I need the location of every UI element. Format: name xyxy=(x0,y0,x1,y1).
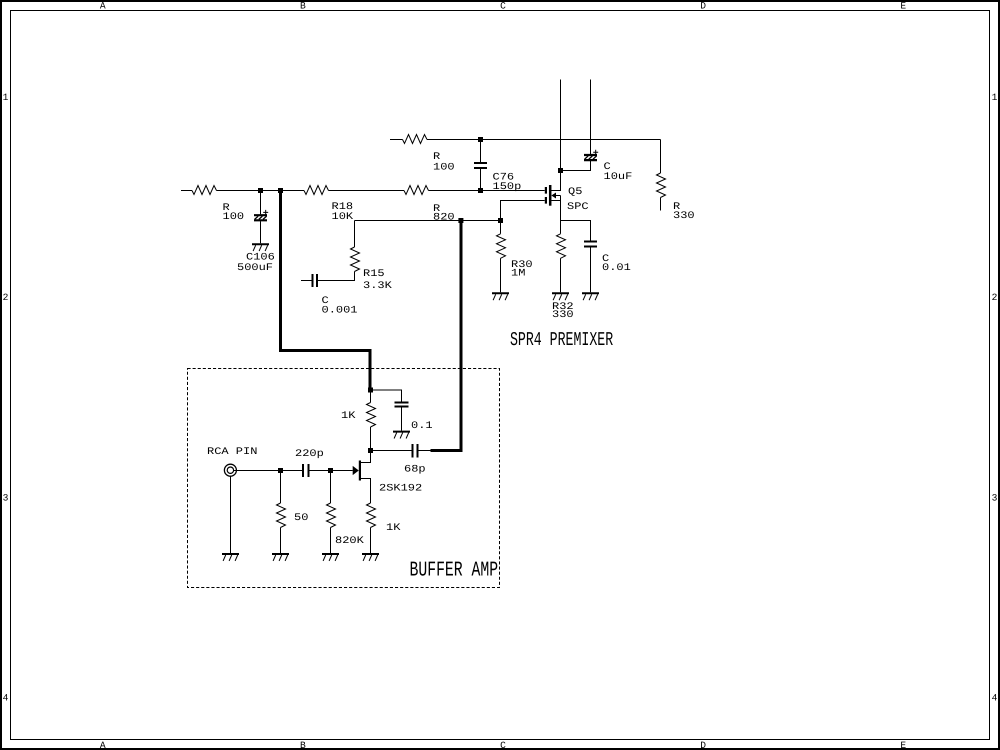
capacitor C 0.01 xyxy=(584,242,597,293)
svg-text:500uF: 500uF xyxy=(237,263,273,274)
svg-text:A: A xyxy=(100,740,106,750)
label R 330 xyxy=(673,202,695,222)
svg-text:D: D xyxy=(700,740,706,750)
dashed box buffer amp xyxy=(188,369,500,588)
resistor R32 330 xyxy=(557,221,566,293)
node JFET drain junction xyxy=(368,448,373,453)
wire gate2 rail xyxy=(355,220,501,222)
wire gate2 lead xyxy=(501,201,545,221)
svg-text:0.001: 0.001 xyxy=(322,306,358,317)
label BUFFER AMP xyxy=(410,559,499,582)
node 1K top junction xyxy=(368,388,373,393)
resistor 1K (source) xyxy=(367,503,376,553)
svg-text:1K: 1K xyxy=(341,411,355,422)
capacitor C76 150p xyxy=(474,140,487,191)
resistor R 330 xyxy=(657,173,666,211)
svg-text:10uF: 10uF xyxy=(604,172,633,183)
svg-text:0.01: 0.01 xyxy=(602,263,631,274)
ground 1K source xyxy=(362,554,379,561)
svg-text:820: 820 xyxy=(433,213,455,224)
resistor R 820 xyxy=(404,186,429,195)
wire input gate rail xyxy=(234,470,302,472)
transistor Q5 channel xyxy=(549,185,552,206)
wire vertical to C 10uF xyxy=(590,80,592,155)
label R30 1M xyxy=(511,260,533,280)
svg-text:3: 3 xyxy=(3,492,9,503)
svg-text:D: D xyxy=(700,1,706,12)
wire RCA to ground xyxy=(230,476,232,553)
connector RCA PIN xyxy=(224,464,236,476)
node C106 tap xyxy=(258,188,263,193)
resistor R18 10K xyxy=(304,186,329,195)
svg-text:C106: C106 xyxy=(246,253,275,264)
svg-text:C: C xyxy=(500,1,506,12)
svg-text:330: 330 xyxy=(673,211,695,222)
svg-text:68p: 68p xyxy=(404,465,426,476)
svg-text:3.3K: 3.3K xyxy=(363,281,392,292)
label R18 10K xyxy=(332,202,354,223)
ground C106 xyxy=(252,244,269,251)
node 820K tap xyxy=(328,468,333,473)
svg-text:10K: 10K xyxy=(332,212,354,223)
wire 2SK192 source xyxy=(361,479,371,504)
resistor R15 3.3K xyxy=(318,221,360,281)
svg-text:1: 1 xyxy=(3,92,9,103)
node C76 top xyxy=(478,137,483,142)
svg-text:150p: 150p xyxy=(493,182,522,193)
svg-text:4: 4 xyxy=(992,693,998,704)
wire C106 branch xyxy=(260,191,262,215)
resistor R30 1M xyxy=(497,221,506,293)
svg-text:2SK192: 2SK192 xyxy=(379,484,422,495)
resistor 1K (drain) xyxy=(367,390,376,448)
svg-text:3: 3 xyxy=(992,492,998,503)
label R 100 (top) xyxy=(433,152,455,174)
label RCA PIN xyxy=(207,447,257,458)
ground RCA xyxy=(222,554,239,561)
wire C106 to ground xyxy=(260,221,262,243)
wire to capacitor 68p xyxy=(371,450,412,452)
capacitor C 0.001 xyxy=(301,274,317,287)
svg-text:50: 50 xyxy=(294,513,308,524)
svg-text:100: 100 xyxy=(223,212,245,223)
label C 0.001 xyxy=(322,296,358,317)
label R32 330 xyxy=(552,302,574,321)
svg-text:4: 4 xyxy=(3,693,9,704)
label R 820 xyxy=(433,204,455,224)
label 1K (source) xyxy=(386,523,400,534)
label 220p xyxy=(295,449,324,460)
svg-text:BUFFER AMP: BUFFER AMP xyxy=(410,559,499,582)
svg-text:A: A xyxy=(100,1,106,12)
capacitor C 10uF (electrolytic) xyxy=(584,150,598,160)
svg-text:0.1: 0.1 xyxy=(411,421,433,432)
resistor R 100 (mid) xyxy=(192,186,217,195)
label 0.1 xyxy=(411,421,433,432)
wire thick bus buffer output xyxy=(431,222,462,451)
resistor R 100 (top) xyxy=(403,135,428,144)
svg-text:R15: R15 xyxy=(363,269,385,280)
label Q5 SPC xyxy=(567,187,589,213)
wire vertical drain feed xyxy=(551,80,561,191)
ground cap 0.1 xyxy=(393,432,410,439)
resistor 50 xyxy=(277,471,286,554)
svg-text:RCA PIN: RCA PIN xyxy=(207,447,257,458)
svg-text:2: 2 xyxy=(992,292,998,303)
wire to cap 0.1 xyxy=(371,390,402,402)
node 50 tap xyxy=(278,468,283,473)
wire top supply rail xyxy=(390,139,661,141)
label C 10uF xyxy=(604,162,633,183)
label R 100 (mid) xyxy=(223,203,245,223)
ground 50 xyxy=(272,554,289,561)
svg-text:B: B xyxy=(300,740,306,750)
node C76 bottom xyxy=(478,188,483,193)
node buffer output tap xyxy=(458,218,463,223)
capacitor C106 500uF (electrolytic) xyxy=(254,210,268,220)
wire thick bus from input rail to buffer xyxy=(281,192,371,390)
label R15 3.3K xyxy=(363,269,392,292)
svg-text:1K: 1K xyxy=(386,523,400,534)
label C76 150p xyxy=(493,173,522,194)
capacitor 220p xyxy=(303,464,353,477)
label 50 xyxy=(294,513,308,524)
wire Q5 source xyxy=(551,196,560,221)
svg-text:2: 2 xyxy=(3,292,9,303)
transistor 2SK192 gate arrow xyxy=(353,466,359,475)
svg-text:330: 330 xyxy=(552,310,574,321)
svg-text:100: 100 xyxy=(433,163,455,174)
svg-text:SPC: SPC xyxy=(567,202,589,213)
label 2SK192 xyxy=(379,484,422,495)
transistor Q5 substrate arrow xyxy=(551,193,560,199)
node R30 junction xyxy=(498,218,503,223)
node drain junction xyxy=(558,168,563,173)
svg-text:220p: 220p xyxy=(295,449,324,460)
svg-text:E: E xyxy=(900,1,906,12)
node thick bus tap xyxy=(278,188,283,193)
label 68p xyxy=(404,465,426,476)
label 1K (drain) xyxy=(341,411,355,422)
ground R30 xyxy=(492,293,509,300)
ground 820K xyxy=(322,554,339,561)
ground R32 xyxy=(552,293,569,300)
transistor Q5 SPC gate bars xyxy=(545,187,547,204)
label SPR4 PREMIXER xyxy=(510,329,613,351)
svg-text:C: C xyxy=(500,740,506,750)
transistor 2SK192 channel bar xyxy=(359,461,361,481)
wire 2SK192 drain xyxy=(361,451,371,463)
label C106 500uF xyxy=(237,253,275,275)
svg-text:B: B xyxy=(300,1,306,12)
label C 0.01 xyxy=(602,254,631,274)
wire input rail xyxy=(181,190,545,192)
svg-text:Q5: Q5 xyxy=(568,187,582,198)
svg-text:1M: 1M xyxy=(511,269,525,280)
label 820K xyxy=(335,536,364,547)
svg-text:820K: 820K xyxy=(335,536,364,547)
svg-text:R: R xyxy=(433,152,440,163)
svg-text:1: 1 xyxy=(992,92,998,103)
svg-text:E: E xyxy=(900,740,906,750)
wire source node to C 0.01 xyxy=(561,221,591,241)
capacitor 68p xyxy=(413,444,431,458)
wire to R 330 xyxy=(660,140,662,174)
resistor 820K xyxy=(327,471,336,554)
ground C 0.01 xyxy=(582,293,599,300)
capacitor 0.1 xyxy=(395,403,409,431)
wire C 10uF to drain node xyxy=(561,161,591,171)
svg-text:SPR4 PREMIXER: SPR4 PREMIXER xyxy=(510,329,613,351)
